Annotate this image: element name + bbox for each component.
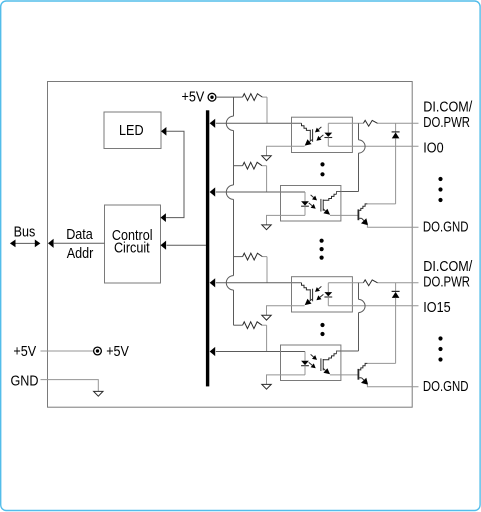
LED diode U21 — [324, 283, 332, 306]
wire +5V bottom — [41, 350, 94, 352]
control circuit block U0 — [105, 205, 161, 283]
svg-text:IO0: IO0 — [423, 139, 444, 156]
svg-text:DO.GND: DO.GND — [423, 377, 469, 394]
optocoupler U12 (output isolation) — [281, 186, 341, 222]
wire U21 emitter to ground — [267, 306, 305, 316]
wire LED anode to DO.PWR — [328, 282, 418, 284]
LED diode U22 — [301, 352, 309, 375]
wire data/addr bus to control circuit — [48, 239, 105, 248]
node IO0 — [423, 139, 444, 156]
wire U12 LED cathode to ground — [267, 215, 306, 225]
terminal circle +5V bottom — [94, 347, 102, 355]
wire control circuit to LED — [161, 127, 185, 222]
base resistor staircase U11 — [302, 123, 311, 130]
LED indicator block — [104, 112, 161, 149]
wire isolation bus to control circuit — [161, 241, 206, 250]
dots more channels (between groups) — [320, 239, 324, 260]
wire IO terminal — [328, 305, 418, 307]
resistor R22 (LED series to DO.PWR) — [363, 280, 377, 286]
wire hop over IO wire — [359, 140, 366, 153]
base resistor staircase U21 — [302, 283, 311, 290]
light arrows U12 — [309, 195, 317, 209]
wire U11 emitter to ground — [267, 146, 305, 156]
svg-text:IO15: IO15 — [423, 298, 451, 315]
diode D1 (flyback to DO.PWR) — [367, 123, 399, 204]
svg-text:+5V: +5V — [13, 342, 36, 359]
svg-text:DO.GND: DO.GND — [423, 218, 469, 235]
base resistor staircase U12 — [323, 192, 341, 201]
wire input channel to isolation bus (arrow) — [210, 278, 302, 287]
dots terminal column (group1) — [438, 177, 442, 202]
wire hop over IO wire — [359, 299, 366, 312]
wire U22 emitter to transistor base — [330, 374, 358, 376]
isolation barrier bus bar — [206, 110, 209, 386]
node +5V (bottom label) — [13, 342, 36, 359]
transistor Q1 (output driver) — [358, 204, 418, 227]
base resistor staircase U22 — [323, 351, 341, 360]
phototransistor U22 — [321, 358, 330, 374]
wire +5V feed — [216, 96, 243, 98]
node DI.COM/DO.PWR (group1) — [423, 97, 472, 130]
dots terminal column (group2) — [438, 336, 442, 361]
ground symbol (input side 2) — [262, 315, 271, 320]
wire Bus double arrow — [10, 240, 41, 248]
resistor R13 (+5V pull-up, output channel) — [234, 162, 267, 192]
wire IO terminal — [328, 145, 418, 147]
phototransistor U21 — [305, 289, 313, 305]
svg-text:DO.PWR: DO.PWR — [423, 272, 470, 289]
node DO.GND (group2) — [423, 377, 469, 394]
phototransistor U11 — [305, 129, 313, 145]
resistor R11 (+5V pull-up, input channel) — [243, 94, 267, 124]
node Data — [66, 225, 93, 242]
ground symbol (GND terminal) — [94, 391, 103, 396]
node +5V (inner label) — [106, 342, 129, 359]
svg-text:Circuit: Circuit — [114, 239, 150, 256]
wire U22 LED cathode to ground — [267, 375, 306, 385]
wire hop over IO15 channel wire — [226, 276, 233, 290]
transistor Q2 (output driver) — [358, 363, 418, 386]
resistor R21 (+5V pull-up, input channel) — [234, 253, 268, 283]
svg-text:Addr: Addr — [67, 244, 94, 261]
node DO.GND (group1) — [423, 218, 469, 235]
ground symbol (output side 1) — [262, 225, 271, 230]
wire output channel to isolation bus (arrow) — [210, 347, 305, 356]
node IO15 — [423, 298, 451, 315]
wire hop over DO channel wire — [226, 185, 233, 199]
wire +5V rail — [233, 97, 235, 325]
module boundary box — [48, 82, 413, 408]
svg-text:Data: Data — [66, 225, 93, 242]
node Bus — [14, 222, 36, 239]
resistor R12 (LED series to DO.PWR) — [363, 120, 377, 126]
LED diode U11 — [324, 123, 332, 146]
node Addr — [67, 244, 94, 261]
+5V terminal (top) — [182, 87, 205, 104]
wire input channel to isolation bus (arrow) — [210, 119, 302, 128]
optocoupler U11 (input isolation) — [292, 117, 353, 152]
LED diode U12 — [301, 192, 309, 215]
wire hop over IO0 channel wire — [226, 116, 233, 130]
node DI.COM/DO.PWR (group2) — [423, 257, 472, 290]
svg-text:+5V: +5V — [106, 342, 129, 359]
diode D2 (flyback to DO.PWR) — [367, 283, 399, 364]
optocoupler U22 (output isolation) — [281, 345, 341, 381]
wire branch to output opto collector — [341, 283, 359, 351]
terminal circle +5V top — [208, 93, 216, 101]
phototransistor U12 — [321, 199, 330, 215]
resistor R23 (+5V pull-up, output channel) — [234, 322, 267, 352]
svg-text:GND: GND — [11, 371, 39, 388]
optocoupler U21 (input isolation) — [292, 277, 353, 312]
light arrows U22 — [309, 354, 317, 368]
dots more input channels (group1) — [320, 162, 324, 176]
svg-text:Bus: Bus — [14, 222, 36, 239]
ground symbol (input side 1) — [262, 156, 271, 161]
dots more input channels (group2) — [320, 323, 324, 336]
wire U12 emitter to transistor base — [330, 214, 358, 216]
svg-text:DO.PWR: DO.PWR — [423, 113, 470, 130]
wire output channel to isolation bus (arrow) — [210, 187, 305, 196]
wire LED anode to DO.PWR — [328, 122, 418, 124]
svg-text:+5V: +5V — [182, 87, 205, 104]
light arrows U21 — [315, 286, 323, 300]
light arrows U11 — [315, 127, 323, 141]
svg-text:LED: LED — [119, 121, 144, 138]
node GND label — [11, 371, 39, 388]
ground symbol (output side 2) — [262, 384, 271, 389]
wire branch to output opto collector — [341, 123, 359, 191]
wire GND — [41, 380, 99, 392]
